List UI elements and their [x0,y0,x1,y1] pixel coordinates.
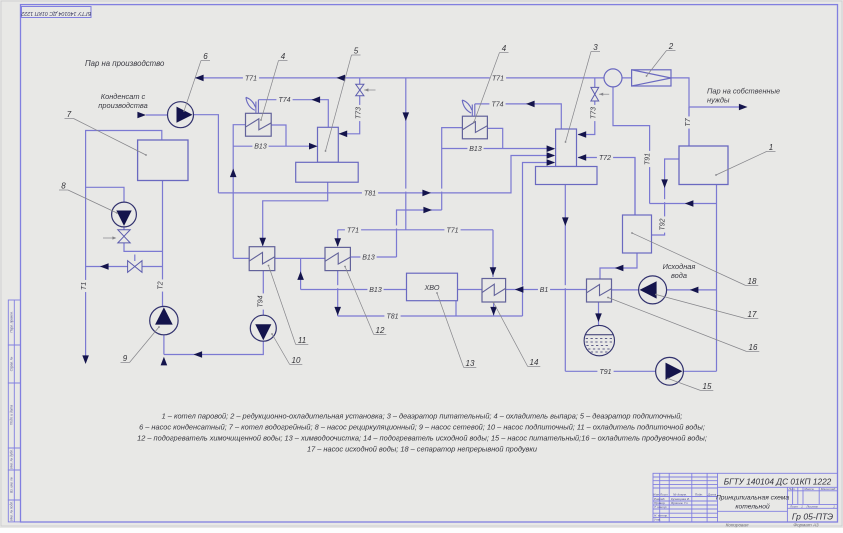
svg-text:В13: В13 [369,287,382,294]
arrow down branch T71 [403,112,410,121]
wire riser x233 condensate distribution [233,125,245,259]
wire heater 11 to heater 12 link [275,257,325,259]
position label 18 with leader [631,232,758,286]
svg-text:Т73: Т73 [591,107,598,119]
position label 11 with leader [268,265,309,345]
svg-text:Т7: Т7 [685,117,692,126]
svg-text:13: 13 [466,359,475,368]
wire T71 lower header to heaters 12 and 14 [338,230,493,277]
wire deaerator 5 outlet to heater 11 [263,182,328,245]
position label 4 with leader [473,44,508,123]
wire pump 8 suction from T1 [86,187,124,202]
label В13 [252,142,268,151]
label Т71 [444,225,460,234]
svg-text:котельной: котельной [735,503,770,511]
position label 15 with leader [667,378,713,391]
svg-text:вода: вода [671,271,687,280]
arrow on T71 main [337,75,346,82]
svg-text:6: 6 [203,52,208,61]
svg-text:Т1: Т1 [81,282,88,290]
blowdown separator 18 [623,215,652,253]
wire separator bottom to cooler 16 [600,253,637,279]
arrow into deaerator 3 feed T81 [547,152,556,159]
arrow T1 network exit [82,355,89,364]
arrow up riser x233 [230,169,237,178]
pump 10 makeup pump [250,315,276,341]
svg-text:14: 14 [530,358,539,367]
wire heater 14 drain to lower T81 [493,302,495,316]
svg-text:3: 3 [593,43,598,52]
svg-text:Пар на собственные: Пар на собственные [707,87,780,96]
svg-text:18: 18 [748,277,757,286]
position label 16 with leader [607,297,759,352]
wire T71 branch down to lower T71 header [405,78,407,230]
svg-text:4: 4 [502,44,507,53]
svg-text:Т91: Т91 [644,153,651,165]
reduction-cooling unit 2 [632,70,671,86]
svg-text:Лист: Лист [659,492,668,496]
arrow cooler 16 drain [595,313,602,322]
svg-text:Т91: Т91 [599,369,611,376]
svg-text:7: 7 [67,110,72,119]
pump 15 feed pump [656,357,684,385]
svg-text:Масштаб: Масштаб [821,487,836,491]
svg-text:Т81: Т81 [364,190,376,197]
label Т81 [384,312,400,321]
wire valve 8 pointer [103,237,115,239]
wire T94 heater 11 drain to pump 10 [262,271,264,316]
svg-text:Т74: Т74 [491,101,503,108]
svg-text:Т74: Т74 [278,97,290,104]
crossing breaks [405,189,407,192]
XBO chemical water treatment 13 [407,273,458,301]
wire steam T7 down to boiler 1 [688,107,690,146]
heat exchanger 11 makeup water cooler [249,247,275,271]
svg-text:Копировал: Копировал [726,523,749,528]
arrow B1 into heater 14 [515,286,524,293]
title block (основная надпись) [653,473,838,522]
pump 8 recirculation pump [112,202,137,227]
pump 9 network pump [150,306,178,334]
vent leaf on cooler 4R [462,100,475,116]
wire pump 9 suction and discharge T2 [163,181,164,355]
arrow T92 blowdown [661,179,668,188]
ROU water injection mixer circle [604,69,622,87]
position label 10 with leader [271,333,302,365]
svg-text:Инв. № подл.: Инв. № подл. [10,501,14,521]
position label 2 with leader [646,42,676,77]
svg-text:В13: В13 [469,146,482,153]
wire cooler 4L outlet to B13 [271,125,286,146]
wire T74 vent line deaerator 3 to cooler 4R [475,104,562,129]
svg-text:№ докум.: № докум. [673,492,687,496]
label Т91 [597,367,613,376]
svg-text:Изм: Изм [653,492,660,496]
hot-water boiler 7 [138,140,188,181]
label Т94 [255,293,264,309]
arrow into heater 14 [490,267,497,276]
title block texts [653,476,835,521]
arrow T71 to production exit [195,75,204,82]
wire cooler 4R outlet to B13 [487,128,502,148]
label В13 [367,285,383,294]
svg-text:Дата: Дата [707,492,716,496]
heat exchanger 12 treated water heater [325,247,350,270]
arrow on bypass [100,263,109,270]
wire condensate from production to pump 6 [146,114,168,116]
svg-text:Справ. №: Справ. № [10,356,14,371]
svg-text:В1: В1 [540,287,549,294]
wire pump 6 discharge down to T81 header [194,115,219,193]
valve on T73 to deaerator 5 [356,84,364,95]
wire B13 from heater 12 up to deaerator 3 [350,149,554,258]
svg-text:12: 12 [376,326,385,335]
arrow into heater 11 [259,238,266,247]
arrow feed branch to ROU [685,200,694,207]
svg-text:Вз. инв. №: Вз. инв. № [10,477,14,493]
svg-text:1: 1 [769,143,773,152]
svg-text:ХВО: ХВО [423,283,439,292]
pump 17 raw water pump [639,276,667,304]
valve on T2-T1 bypass [128,261,142,273]
label Т2 [156,279,165,291]
svg-text:15: 15 [703,382,712,391]
svg-text:8: 8 [61,182,66,191]
wire heater 11 feed from riser [233,257,249,259]
heat exchanger 16 blowdown water cooler [587,279,612,302]
wire lower T81 drain collector [338,315,523,317]
wire ROU outlet and steam to own needs [671,78,741,146]
svg-text:Т73: Т73 [355,107,362,119]
position label 6 with leader [183,52,210,112]
svg-text:Перв. примен.: Перв. примен. [10,311,14,332]
arrow steam to own needs exit [739,104,748,111]
position label 9 with leader [121,326,160,363]
label В1 [538,285,550,294]
svg-text:Принципиальная схема: Принципиальная схема [716,495,789,502]
svg-text:12 – подогреватель химочищенно: 12 – подогреватель химочищенной воды; 13… [137,434,707,443]
top-left designation box (rotated 180) [21,7,91,18]
svg-text:Подп.: Подп. [695,492,703,496]
wire T73 branch to deaerator 5 with elbow [339,78,360,134]
svg-text:9: 9 [123,354,128,363]
svg-text:17: 17 [748,310,757,319]
wire cooler 16 drain to bubbler [598,302,600,326]
wire feed branch to ROU injector [650,203,717,205]
svg-text:17 – насос исходной воды; 18 –: 17 – насос исходной воды; 18 – сепаратор… [307,445,537,454]
label Т71 [345,225,361,234]
wire valve D5 pointer [364,89,375,91]
arrow on B13 jog [423,207,432,214]
svg-text:Т71: Т71 [446,227,458,234]
svg-text:производства: производства [98,101,147,110]
svg-text:Т. контр: Т. контр [654,505,667,509]
svg-text:5: 5 [354,47,359,56]
arrow heater 12 drain [334,307,341,316]
label Т7 [683,116,692,128]
svg-text:1 – котел паровой; 2 – редукци: 1 – котел паровой; 2 – редукционно-охлад… [162,412,683,421]
svg-text:1: 1 [801,505,803,509]
label Т91 [642,151,651,167]
position label 1 with leader [715,143,775,176]
label Т72 [597,153,613,162]
arrow T73 into deaerator 5 [339,131,348,138]
heat exchanger 4 (vapour cooler, right) [462,116,487,139]
position label 5 with leader [325,47,361,152]
svg-text:Т71: Т71 [492,75,504,82]
svg-text:Лист: Лист [789,505,798,509]
arrow T73 into deaerator 3 [578,131,587,138]
arrow into deaerator 3 feed B13 [547,145,556,152]
wire bypass from T2 to T1 with valve [86,255,163,267]
wire valve D3 pointer [599,93,609,95]
position label 17 with leader [655,294,758,319]
wire XBO drain to lower T81 [455,301,457,316]
svg-text:10: 10 [292,356,301,365]
arrow into deaerator 3 third feed [547,159,556,166]
label Т73 [353,105,362,121]
position label 8 with leader [59,182,118,214]
svg-text:Ярошев. Гл.: Ярошев. Гл. [670,501,688,505]
svg-text:11: 11 [298,336,306,345]
label Т71 [243,74,259,83]
position label 14 with leader [493,302,541,367]
wire boiler 7 top to T1 header [86,131,162,358]
label Т71 [490,74,506,83]
label Т74 [489,100,505,109]
vent leaf on cooler 4L [246,97,259,113]
feed deaerator 3 (column + tank) [536,129,598,185]
wire third feed into deaerator 3 from lower T81 [523,163,555,317]
wire T91 bottom line to feed pump 15 [565,370,716,372]
label Т74 [276,95,292,104]
svg-text:Т92: Т92 [659,218,666,230]
svg-text:16: 16 [749,343,758,352]
position label 7 with leader [65,110,147,156]
wire cooler 4R left feed [442,128,463,149]
arrow deaerator 3 outlet [562,217,569,226]
arrow into heater 12 [334,238,341,247]
svg-text:Лит.: Лит. [787,487,795,491]
arrow T72 into deaerator 3 [578,154,587,161]
left margin stamp table [8,300,20,522]
heat exchanger 14 raw water heater [482,279,506,303]
valve below pump 8 [118,230,130,243]
svg-text:Пар на производство: Пар на производство [85,59,165,68]
position label 3 with leader [565,43,600,143]
wire T73 branch to deaerator 3 with elbow [578,78,595,135]
wire T71 main steam header [195,77,632,79]
wire heater 12 drain to lower T81 [337,271,339,316]
svg-text:нужды: нужды [707,96,730,105]
wire T74 vent line deaerator 5 to cooler 4L [258,100,328,128]
svg-text:Листов: Листов [805,505,818,509]
wire boiler blowdown T92 to separator [652,159,680,235]
svg-text:БГТУ 140104 ДС 01КП 1222: БГТУ 140104 ДС 01КП 1222 [21,10,91,16]
position label 13 with leader [436,292,476,368]
svg-text:БГТУ 140104 ДС 01КП 1222: БГТУ 140104 ДС 01КП 1222 [724,476,832,486]
arrow separator drain to cooler [615,265,624,272]
arrow up riser between heaters [297,271,304,280]
svg-text:4: 4 [281,52,286,61]
svg-text:В13: В13 [254,144,267,151]
drain bubbler tank [584,325,614,355]
wire B13 from XBO to riser [301,289,407,291]
heat exchanger 4 (vapour cooler, left) [246,113,272,136]
arrow pump 17 suction [690,287,699,294]
arrow on T81 header [422,190,431,197]
valve on T73 to deaerator 3 [591,87,599,101]
label Т73 [589,105,598,121]
arrow on T74 left [312,96,321,103]
wire B13 riser from XBO line up between heaters [300,258,302,289]
wire water injection line from T91 to ROU mixer [613,87,650,204]
arrow heater 14 drain [490,307,497,316]
wire feed riser to boiler [716,185,718,372]
svg-text:Формат А3: Формат А3 [793,523,819,528]
label Т1 [79,280,88,292]
svg-text:Масса: Масса [804,487,813,491]
wire raw water heater 16 to pump 17 [612,289,639,291]
wire T72 from separator to deaerator 3 [578,158,635,216]
arrow pump10 to pump9 line [194,351,203,358]
svg-text:Конденсат с: Конденсат с [101,92,146,101]
svg-text:Инв. № дубл.: Инв. № дубл. [10,449,14,469]
svg-text:Гр 05-ПТЭ: Гр 05-ПТЭ [792,512,833,522]
wire B1 raw water line XBO-14-16 [458,289,587,291]
arrow condensate inlet [137,112,146,119]
pump 6 condensate pump [168,102,194,128]
wire deaerator 3 outlet down to T91 [564,185,566,372]
label В13 [467,144,483,153]
svg-text:Т71: Т71 [347,227,359,234]
position label 12 with leader [344,266,386,335]
wire pump 8 discharge through valve to T2 [124,227,163,251]
svg-text:Т94: Т94 [257,295,264,307]
svg-text:Т81: Т81 [386,314,398,321]
wire pump 17 suction from riser [667,289,717,291]
svg-text:Утв.: Утв. [654,518,661,522]
svg-text:Т72: Т72 [599,155,611,162]
svg-text:1: 1 [833,505,835,509]
svg-text:Т2: Т2 [158,281,165,289]
svg-text:Исходная: Исходная [663,262,696,271]
makeup deaerator 5 (column + tank) [296,127,359,182]
steam boiler 1 [679,146,728,185]
valve pointer tips [364,88,368,91]
wire separator top outlet [634,158,636,216]
svg-text:6 – насос конденсатный; 7 – ко: 6 – насос конденсатный; 7 – котел водогр… [139,423,705,432]
arrow T2 network stub [161,357,168,366]
arrow on T74 right [526,101,535,108]
svg-text:Подп. и дата: Подп. и дата [10,405,14,425]
label В13 [360,253,376,262]
svg-text:Т71: Т71 [245,75,257,82]
label Т92 [657,216,666,232]
svg-text:2: 2 [668,42,674,51]
wire T81 header to deaerator 3 [218,156,554,193]
position label 4 with leader [260,52,287,121]
label Т81 [362,189,378,198]
wire B13 line into deaerator 5 [233,145,316,147]
arrow B13 into deaerator 5 [309,143,318,150]
wire pump 10 discharge to pump 9 suction [164,341,263,354]
svg-text:В13: В13 [362,255,375,262]
